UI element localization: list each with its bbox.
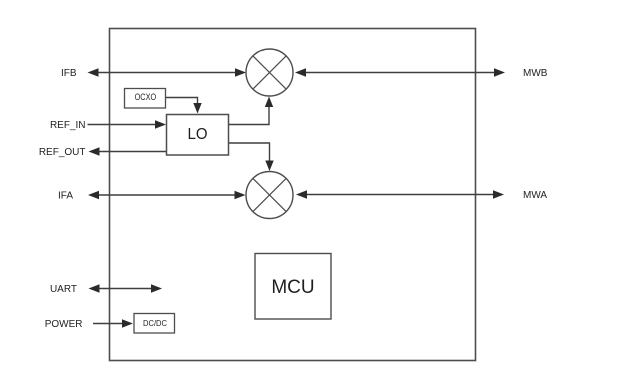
svg-text:POWER: POWER <box>45 319 83 330</box>
svg-text:MWB: MWB <box>523 68 548 79</box>
svg-text:IFB: IFB <box>61 68 77 79</box>
svg-text:LO: LO <box>188 126 208 143</box>
svg-text:UART: UART <box>50 284 77 295</box>
svg-text:MCU: MCU <box>271 277 314 298</box>
svg-text:OCXO: OCXO <box>135 92 157 103</box>
svg-text:MWA: MWA <box>523 190 547 201</box>
svg-text:DC/DC: DC/DC <box>143 318 167 328</box>
svg-text:REF_OUT: REF_OUT <box>39 147 86 158</box>
svg-text:REF_IN: REF_IN <box>50 120 86 131</box>
svg-text:IFA: IFA <box>58 191 73 202</box>
